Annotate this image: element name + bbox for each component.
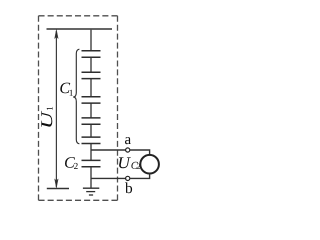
brace grouping C1 stack: [73, 49, 79, 144]
voltage dimension arrow U1: [55, 29, 59, 188]
label C2: [65, 157, 78, 169]
capacitor element 5 of C1 stack: [82, 137, 101, 143]
terminal a: [126, 148, 130, 152]
label C1: [60, 83, 73, 96]
wire: tap to terminal b: [91, 177, 126, 179]
label b: [125, 182, 132, 193]
label UC2: [119, 157, 140, 169]
dashed enclosure box: [39, 16, 118, 201]
capacitor element 2 of C1 stack: [82, 72, 101, 78]
wire: top bus: [47, 28, 113, 30]
wire: from terminal b to detector: [130, 173, 150, 178]
ground symbol: [83, 188, 99, 195]
detector instrument: [140, 155, 159, 174]
wire: from terminal a to detector: [130, 150, 150, 155]
wire: tap to terminal a: [91, 149, 126, 151]
terminal b: [126, 176, 130, 180]
wire: bottom reference line: [47, 188, 69, 190]
capacitor element 4 of C1 stack: [82, 118, 101, 124]
capacitor element 1 of C1 stack: [82, 51, 101, 58]
capacitor C2: [82, 160, 101, 166]
wire: main vertical column segments: [90, 29, 92, 188]
capacitor element 3 of C1 stack: [82, 97, 101, 103]
label U1: [41, 107, 52, 127]
label a: [125, 137, 131, 144]
